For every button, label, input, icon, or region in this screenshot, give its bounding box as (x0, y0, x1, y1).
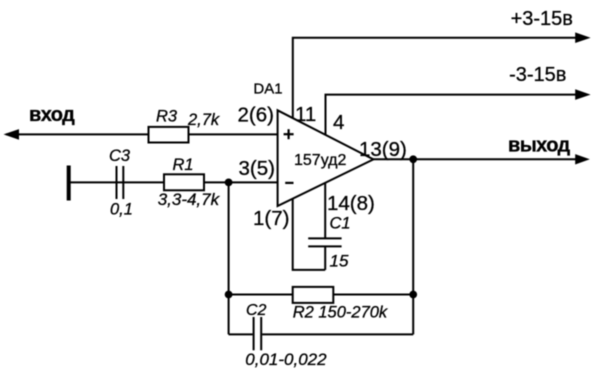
op-amp plus input marker (284, 129, 294, 139)
wire pin 1(7) L (293, 199, 326, 270)
wire pin 4 vertical (326, 95, 578, 136)
node output junction dot (409, 155, 417, 163)
svg-text:-3-15в: -3-15в (509, 64, 566, 86)
arrow +rail right (575, 32, 590, 43)
svg-text:3(5): 3(5) (239, 157, 275, 180)
svg-text:R1: R1 (173, 156, 194, 174)
wire output line (373, 158, 577, 160)
svg-text:0,1: 0,1 (110, 200, 133, 218)
svg-text:15: 15 (330, 251, 349, 270)
svg-text:выход: выход (508, 135, 571, 157)
svg-text:C1: C1 (330, 215, 351, 233)
svg-text:11: 11 (295, 103, 316, 126)
resistor R1 (164, 174, 204, 190)
wire output feedback right vertical (412, 159, 414, 334)
capacitor C2 (254, 317, 262, 350)
wire pin 14(8) vertical (324, 180, 326, 238)
svg-text:3,3-4,7k: 3,3-4,7k (158, 190, 221, 209)
node feedback left dot (225, 291, 233, 299)
svg-text:вход: вход (29, 104, 75, 126)
capacitor C1 (308, 238, 341, 246)
svg-text:R3: R3 (156, 107, 178, 125)
wire input line (6, 133, 278, 135)
resistor R3 (149, 127, 189, 143)
arrow -rail right (575, 89, 590, 100)
svg-text:157уд2: 157уд2 (294, 152, 347, 169)
svg-text:+3-15в: +3-15в (511, 8, 573, 30)
wire pin 11 vertical (293, 38, 577, 119)
svg-text:DA1: DA1 (253, 80, 282, 97)
svg-text:4: 4 (333, 111, 344, 134)
op-amp U1 triangle (278, 110, 374, 206)
wire C2 branch bottom (229, 333, 253, 335)
svg-text:14(8): 14(8) (327, 192, 375, 215)
svg-text:1(7): 1(7) (253, 207, 289, 230)
svg-text:C3: C3 (109, 147, 131, 165)
node feedback right dot (409, 291, 417, 299)
capacitor C3 (117, 166, 124, 199)
wire noninverting to opamp (69, 181, 278, 183)
wire feedback R2 horizontal (229, 294, 414, 296)
svg-text:R2 150-270k: R2 150-270k (293, 303, 388, 321)
wire node A feedback left vertical (228, 182, 230, 334)
wire C1 bottom to L (324, 246, 326, 270)
resistor R2 (293, 287, 334, 303)
svg-text:C2: C2 (246, 302, 267, 319)
input terminal bar (67, 166, 71, 201)
svg-text:13(9): 13(9) (359, 138, 407, 161)
node A junction dot (225, 179, 233, 187)
svg-text:2,7k: 2,7k (187, 111, 220, 129)
arrow output right (575, 154, 590, 164)
svg-text:0,01-0,022: 0,01-0,022 (245, 350, 327, 369)
op-amp minus input marker (285, 182, 293, 184)
svg-text:2(6): 2(6) (238, 103, 274, 126)
arrow input left (4, 129, 20, 140)
